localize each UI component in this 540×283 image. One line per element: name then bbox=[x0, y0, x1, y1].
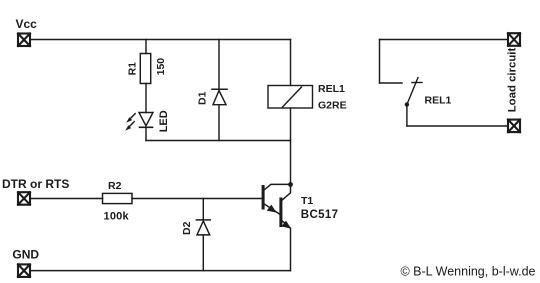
wire mid rail bbox=[146, 140, 291, 142]
Q2 collector bbox=[282, 184, 290, 199]
wire load bottom rail bbox=[407, 125, 508, 127]
svg-text:© B-L Wenning, b-l-w.de: © B-L Wenning, b-l-w.de bbox=[401, 265, 536, 279]
Q1 base bar bbox=[262, 185, 265, 210]
svg-text:DTR or RTS: DTR or RTS bbox=[2, 177, 69, 191]
wire LED to mid rail bbox=[145, 127, 147, 140]
wire D2 bottom bbox=[202, 235, 204, 271]
svg-text:Load circuit: Load circuit bbox=[506, 48, 518, 113]
wire D1 bottom bbox=[218, 105, 220, 141]
resistor R2 bbox=[103, 193, 133, 203]
terminal GND bbox=[18, 264, 30, 277]
junction dot switch pivot bbox=[405, 102, 409, 106]
Q1 emitter bbox=[265, 204, 280, 214]
wire switch stub bbox=[380, 82, 403, 84]
svg-text:G2RE: G2RE bbox=[318, 100, 347, 112]
svg-text:T1: T1 bbox=[301, 195, 313, 207]
svg-text:Vcc: Vcc bbox=[16, 17, 38, 31]
wire top rail Vcc to relay column bbox=[30, 39, 291, 41]
diode D2 bbox=[196, 220, 210, 235]
LED arrows bbox=[125, 114, 135, 131]
relay coil REL1 bbox=[268, 86, 313, 109]
Q2 emitter bbox=[282, 221, 290, 271]
terminal DTR or RTS bbox=[18, 192, 30, 205]
switch REL1 contact bbox=[407, 78, 422, 105]
wire GND rail bbox=[30, 270, 291, 272]
wire load left vertical bbox=[379, 40, 381, 84]
svg-text:D2: D2 bbox=[181, 221, 193, 235]
junction dot collector bbox=[288, 182, 293, 187]
svg-text:D1: D1 bbox=[197, 91, 209, 105]
terminal Vcc bbox=[18, 34, 30, 47]
svg-text:BC517: BC517 bbox=[301, 209, 339, 221]
svg-text:150: 150 bbox=[155, 58, 167, 76]
svg-text:LED: LED bbox=[158, 110, 170, 132]
wire R1 to LED bbox=[145, 84, 147, 113]
Q1 collector bbox=[265, 184, 291, 189]
transistor T1 darlington bbox=[262, 182, 293, 271]
wire D2 top bbox=[202, 199, 204, 220]
wire R1 top bbox=[145, 40, 147, 54]
wire relay top bbox=[290, 40, 292, 86]
svg-text:100k: 100k bbox=[104, 210, 130, 222]
terminal load top bbox=[508, 33, 520, 46]
wire DTR to R2 bbox=[30, 198, 103, 200]
resistor R1 bbox=[140, 54, 150, 84]
wire relay to collector bbox=[290, 108, 292, 185]
diode D1 bbox=[212, 89, 227, 104]
svg-text:R2: R2 bbox=[108, 180, 122, 192]
wire load top rail bbox=[380, 39, 509, 41]
terminal load bottom bbox=[508, 120, 520, 133]
wire switch down bbox=[406, 105, 408, 127]
wire R2 to base bbox=[132, 198, 262, 200]
svg-text:REL1: REL1 bbox=[318, 83, 345, 95]
LED diode bbox=[139, 113, 153, 128]
svg-text:R1: R1 bbox=[127, 62, 139, 76]
wire D1 top bbox=[218, 40, 220, 90]
Q2 base bar bbox=[279, 198, 282, 228]
svg-text:GND: GND bbox=[12, 247, 39, 261]
svg-text:REL1: REL1 bbox=[425, 94, 452, 106]
